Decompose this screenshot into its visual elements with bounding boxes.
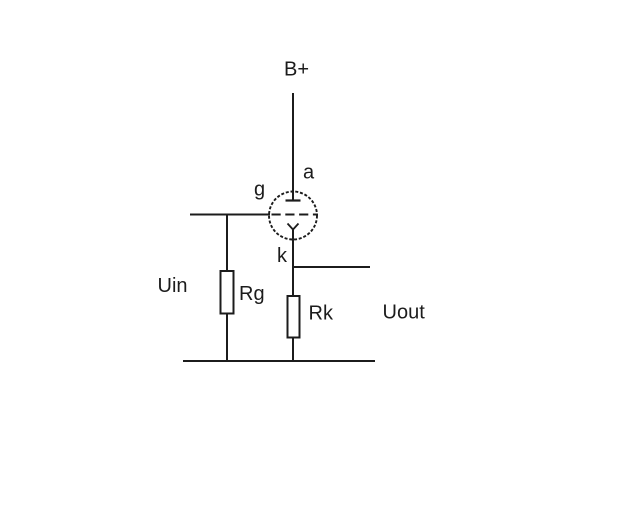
svg-text:k: k (277, 245, 288, 267)
wire grid input (190, 214, 270, 216)
svg-text:Uout: Uout (383, 302, 426, 324)
svg-text:a: a (303, 162, 315, 184)
wire anode feed from B+ (292, 93, 294, 201)
wire cathode down to ground (292, 230, 294, 362)
svg-text:g: g (254, 179, 265, 201)
triode V1 anode plate (286, 199, 301, 201)
triode V1 grid (dashed) (272, 214, 319, 216)
wire ground bus (183, 360, 375, 362)
svg-text:Rg: Rg (239, 283, 265, 305)
triode V1 envelope (269, 192, 317, 240)
resistor Rk (288, 296, 300, 338)
svg-text:Uin: Uin (158, 275, 188, 297)
triode V1 cathode (288, 224, 299, 230)
svg-text:Rk: Rk (309, 303, 334, 325)
wire output (293, 266, 370, 268)
resistor Rg (221, 271, 234, 314)
svg-text:B+: B+ (284, 59, 309, 81)
wire junction drop to Rg (226, 215, 228, 362)
